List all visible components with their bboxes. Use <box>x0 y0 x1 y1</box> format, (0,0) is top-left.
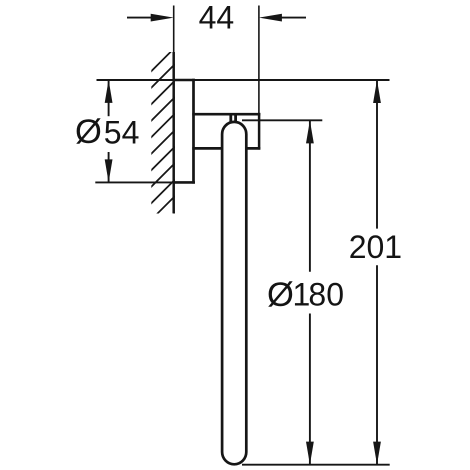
svg-text:44: 44 <box>199 0 235 36</box>
holder arm bottom line <box>192 147 260 150</box>
ring tube (side view capsule) <box>222 122 246 464</box>
dim 201 line + arrows <box>376 80 378 465</box>
bottom extension line of plate (O54 bottom) <box>95 181 195 183</box>
extension line 44 left <box>173 6 175 53</box>
svg-text:54: 54 <box>104 114 140 150</box>
ring attachment nubs <box>229 115 232 122</box>
svg-text:80: 80 <box>308 277 344 313</box>
O180 top extension line <box>242 119 322 121</box>
wall plate right edge <box>192 79 195 184</box>
holder arm front edge <box>258 113 261 150</box>
svg-text:Ø: Ø <box>267 276 294 314</box>
dim O180 line + arrows <box>309 120 311 464</box>
dim 44 left arrow <box>127 14 174 22</box>
extension line 44 right <box>258 6 260 114</box>
top extension line (plate top + to 201 dim) <box>97 79 390 81</box>
wall hatching <box>149 48 175 239</box>
dim 44 right arrow <box>259 14 306 22</box>
svg-text:Ø: Ø <box>75 113 102 151</box>
svg-text:201: 201 <box>349 229 402 265</box>
wall line <box>172 52 175 213</box>
bottom extension line (ring bottom) <box>242 464 390 466</box>
holder arm top line <box>192 113 260 116</box>
dim O54 line + arrows <box>108 80 110 182</box>
